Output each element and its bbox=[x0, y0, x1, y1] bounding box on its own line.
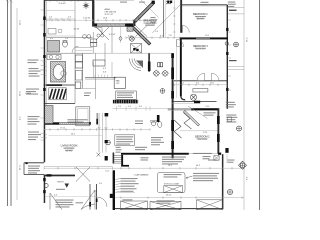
cased opening jamb bbox=[96, 119, 98, 125]
nook arcs bbox=[129, 59, 141, 71]
foyer east wall bbox=[96, 184, 98, 210]
stairwell line a bbox=[98, 113, 100, 153]
dim diamond laundry bbox=[119, 36, 122, 41]
hall north line y53 extension bbox=[93, 52, 172, 54]
pantry dark squares bbox=[133, 48, 138, 51]
bottom-left note rows bbox=[56, 200, 74, 208]
fan diamond laundry bbox=[129, 36, 135, 42]
wd counter lines bbox=[75, 48, 92, 51]
svg-text:5'-10: 5'-10 bbox=[206, 106, 210, 108]
kitchen cabinet ticks bbox=[95, 75, 108, 78]
west wall inner face bbox=[46, 0, 48, 122]
column symbol diamond bbox=[239, 161, 247, 169]
1car note rows bbox=[121, 178, 139, 192]
bath2 wall hatch bbox=[157, 115, 160, 122]
dim ticks y20 bbox=[47, 19, 151, 22]
garage north wall west part bbox=[121, 153, 189, 155]
svg-text:STOR 20x1 CLEAR: STOR 20x1 CLEAR bbox=[164, 183, 180, 186]
top-left room line y10 bbox=[47, 10, 76, 12]
garage door opening head bbox=[189, 153, 218, 155]
patio note bbox=[204, 112, 216, 115]
foyer east wall b bbox=[89, 184, 91, 210]
east window sill mark 1 bbox=[226, 28, 228, 31]
svg-text:4'-2: 4'-2 bbox=[103, 68, 106, 70]
bedroom2 SE corner block bbox=[225, 148, 228, 153]
dim ticks y197.6 bbox=[121, 197, 242, 199]
dim text 4-1 5-8 bbox=[74, 29, 80, 31]
two bed note bbox=[208, 160, 217, 161]
misc leader lines garage notes bbox=[115, 179, 120, 193]
garage east wall outer bbox=[226, 154, 228, 163]
dim line y130.8 bed2 bbox=[180, 130, 217, 132]
bath3 wall seg bbox=[74, 38, 76, 53]
label bedroom3 bbox=[193, 45, 208, 48]
label 1 car garage bbox=[134, 174, 150, 177]
entry reference line long bbox=[44, 165, 113, 167]
leader lines living texts bbox=[41, 133, 48, 138]
svg-text:8'-0: 8'-0 bbox=[139, 106, 142, 108]
dim label 4-3 bbox=[54, 194, 57, 196]
laundry wall x105 bbox=[104, 43, 106, 62]
bay diagonal lower hatched bbox=[132, 26, 151, 45]
bedroom3 north wall hatchgap bbox=[196, 38, 210, 39]
porch south wall bbox=[24, 174, 44, 176]
kitchen circles bbox=[83, 35, 91, 39]
bedroom3 south wall bbox=[174, 80, 227, 82]
hall west wall hatch 3 bbox=[171, 91, 174, 99]
west wall window 1 bbox=[43, 17, 46, 21]
bedroom4 window sill bbox=[229, 10, 237, 11]
west wall window 2 bbox=[43, 33, 46, 37]
entry door swing 2 bbox=[50, 193, 62, 210]
bath2 toilet bbox=[158, 122, 162, 128]
bedroom2 north wall thin part bbox=[168, 108, 192, 110]
laundry door arc bbox=[95, 27, 103, 34]
top-left room marks bbox=[48, 29, 62, 35]
fireplace dark band bbox=[113, 100, 138, 104]
east window sill mark 3 bbox=[226, 88, 228, 91]
nook hatch dark bbox=[136, 61, 143, 69]
porch post bbox=[26, 162, 28, 164]
top text marks mid bbox=[120, 1, 145, 4]
bath2 lav bbox=[151, 120, 157, 125]
west wall window 3 bbox=[43, 55, 46, 58]
wic shelves dark bbox=[50, 89, 67, 99]
garage north wall east jamb bbox=[218, 153, 221, 155]
dim labels y166.5 bbox=[168, 165, 200, 167]
hall line y53 bbox=[47, 52, 93, 54]
wall up from opening bbox=[96, 113, 98, 122]
vert dim x174 bbox=[173, 0, 175, 38]
porch note rows bbox=[28, 166, 40, 174]
dim labels y84 bbox=[180, 83, 214, 85]
label breakfast hgt bbox=[147, 25, 154, 27]
bedroom4 dim ticks x174 bbox=[173, 8, 175, 32]
stairwell dark blob 1 bbox=[105, 113, 109, 116]
kitchen east wall bbox=[148, 53, 150, 71]
label area2 bbox=[105, 11, 117, 14]
svg-text:4'-0: 4'-0 bbox=[99, 183, 102, 185]
svg-text:11'-0: 11'-0 bbox=[210, 83, 214, 85]
wic south wall dark bbox=[47, 84, 63, 86]
garage storage outline bbox=[158, 173, 186, 193]
note rows master closet bbox=[29, 68, 41, 77]
dim labels bedrooms split bbox=[169, 35, 209, 37]
corridor text marks bbox=[84, 93, 91, 97]
label area3 bbox=[105, 14, 115, 16]
small X box bbox=[214, 156, 219, 161]
label entry bbox=[58, 182, 65, 184]
conc pad note bbox=[226, 102, 236, 108]
svg-text:20'-10: 20'-10 bbox=[166, 195, 171, 197]
stair east wall black L vertical bbox=[121, 155, 123, 167]
wd16 note bbox=[157, 200, 175, 203]
bedroom2 closet zigzag bbox=[174, 120, 181, 138]
bedroom4 west wall bbox=[180, 0, 182, 33]
kitchen wall y79 bbox=[85, 78, 115, 80]
label living room bbox=[61, 145, 78, 148]
svg-text:WD HGT: WD HGT bbox=[66, 151, 73, 153]
svg-text:1'-6: 1'-6 bbox=[65, 38, 68, 40]
dim labels y128 bbox=[60, 127, 107, 129]
cu ab door note bbox=[162, 157, 186, 165]
foyer wall blob 1 bbox=[89, 202, 91, 207]
mbath vanity bowls bbox=[49, 55, 59, 58]
entry wall dark block bbox=[47, 174, 52, 176]
dim text 3-4 bbox=[59, 3, 67, 5]
svg-text:3'-4 5/8: 3'-4 5/8 bbox=[59, 3, 67, 5]
label living hgt bbox=[66, 151, 73, 153]
bath3 vanity hatched bbox=[48, 41, 60, 53]
east window sill mark 2 bbox=[226, 52, 228, 55]
laundry west wall bbox=[92, 0, 94, 26]
bath3 toilet bbox=[63, 41, 68, 48]
kitchen sink small bbox=[76, 71, 82, 81]
closet wall x163.5 b bbox=[164, 0, 166, 37]
leader arrow use-if bbox=[186, 176, 193, 178]
entry column circle bbox=[44, 184, 48, 188]
label bedroom3 size bbox=[196, 49, 205, 51]
dim label 24-2 bbox=[71, 134, 75, 136]
dim text 36 rotated bbox=[20, 91, 22, 96]
svg-text:17'-10: 17'-10 bbox=[60, 127, 65, 129]
bedroom2 NW diagonal bbox=[183, 110, 199, 126]
dining east wall upper bbox=[74, 0, 76, 38]
dim row y107 garage top bbox=[113, 106, 168, 111]
property line west A bbox=[7, 0, 9, 206]
dim text 11-0 rotated bbox=[20, 165, 22, 170]
laundry north wall block E bbox=[125, 23, 133, 26]
svg-text:7'-8: 7'-8 bbox=[169, 35, 172, 37]
shower hatched bbox=[45, 106, 53, 124]
garage X box mid bbox=[164, 186, 183, 193]
entry door swings bbox=[81, 190, 95, 210]
west wall window 6 bbox=[43, 190, 46, 193]
dim ticks y19 dining bbox=[50, 18, 68, 20]
opt sect door note bbox=[135, 147, 147, 150]
garage south wall bbox=[115, 208, 223, 210]
use if note bbox=[193, 173, 219, 181]
kitchen south counter line bbox=[75, 88, 95, 90]
bedroom2 east wall hatch 1 bbox=[217, 116, 220, 124]
pantry shelves bbox=[131, 44, 142, 54]
label bedroom4 bbox=[193, 13, 208, 16]
pantry label bbox=[116, 80, 120, 86]
corridor wall x95.5 bbox=[95, 53, 97, 78]
ent cab text rows bbox=[117, 92, 134, 98]
bath2 note rows bbox=[151, 137, 164, 145]
bath2 south wall east bbox=[200, 101, 217, 103]
svg-text:4'-0: 4'-0 bbox=[50, 38, 53, 40]
mbath wall x75 bbox=[74, 53, 76, 103]
dim text 4-2 bbox=[109, 34, 115, 36]
dim chain east bbox=[243, 0, 245, 210]
window symbol circle top bbox=[234, 42, 239, 47]
dim text 8-2 rotated east bottom bbox=[247, 176, 249, 180]
dim text 5-10 bed2 bbox=[206, 106, 210, 108]
top note B east bbox=[228, 2, 236, 8]
dim line y37.7 center bbox=[126, 37, 180, 39]
east note block bbox=[226, 115, 237, 123]
east wall window lines A bbox=[228, 66, 244, 68]
bedroom2 east wall bbox=[217, 108, 219, 154]
bath2 south wall west bbox=[172, 102, 194, 104]
bay outer face line bbox=[141, 0, 159, 18]
window symbol circle left bbox=[225, 42, 228, 45]
dining dim line 2 bbox=[47, 35, 76, 37]
property line east bbox=[259, 0, 261, 210]
kitchen west appliances bbox=[75, 55, 82, 88]
fan circle bbox=[160, 89, 165, 94]
bedroom2 hall wall bbox=[180, 39, 182, 96]
tick arrows y152 bbox=[97, 153, 101, 157]
bedroom2 north wall dark part bbox=[191, 108, 217, 110]
bed cabinet note bbox=[68, 119, 88, 122]
column symbol circle low bbox=[227, 189, 232, 194]
note rows bath dims bbox=[28, 116, 40, 125]
survey circle mid-east bbox=[237, 126, 242, 131]
garage west wall jog bbox=[110, 194, 113, 198]
dim label 20-10 bbox=[166, 195, 171, 197]
label bedroom2 size bbox=[198, 139, 207, 141]
stairwell dark blob 2 bbox=[105, 140, 108, 143]
label bedroom4 hgt bbox=[197, 19, 204, 21]
west wall window 5 bbox=[43, 178, 46, 181]
wd 9-0 note bbox=[193, 153, 212, 154]
storage label bbox=[164, 183, 180, 186]
north wall bedroom4 bbox=[182, 4, 227, 6]
corridor wall x93 bbox=[92, 32, 94, 53]
closet wall x163.5 bbox=[163, 0, 165, 37]
kitchen island bbox=[93, 60, 105, 66]
label breakfast size bbox=[146, 23, 155, 25]
breakfast door swing X bbox=[136, 26, 148, 37]
top line ticks bbox=[50, 0, 85, 2]
north wall laundry top bbox=[96, 0, 135, 2]
left wall dim marks bbox=[41, 10, 44, 140]
dim line y168 bottom bbox=[44, 167, 244, 169]
note rows wic2 bbox=[26, 89, 39, 95]
garage door X panel B bbox=[150, 202, 181, 210]
boxed note rows bbox=[116, 136, 133, 144]
dim ticks y168 bbox=[44, 167, 244, 170]
ent cab box bbox=[116, 91, 137, 99]
washer dryer boxes bbox=[90, 39, 97, 46]
chain tick marks west bbox=[6, 0, 12, 2]
east exterior wall upper bbox=[227, 5, 228, 109]
dim text 8-2 rotated east top bbox=[247, 37, 249, 42]
bedroom2 leader diagonal bbox=[188, 106, 208, 119]
corridor wall x95.5 lower bbox=[95, 78, 97, 99]
east wall window lines D bbox=[228, 7, 244, 9]
mbath vanity bbox=[47, 55, 61, 60]
bedroom3 row marks bbox=[195, 47, 206, 50]
west wall window 4 bbox=[43, 88, 46, 91]
dim note 16-0 bbox=[123, 199, 133, 200]
dim labels y18 bbox=[83, 17, 141, 19]
east wall window lines C bbox=[228, 13, 244, 15]
hall east line bbox=[176, 39, 178, 98]
bedroom3 door arc nw bbox=[177, 39, 184, 46]
pantry box bbox=[114, 77, 125, 88]
bedroom2 closet zig2 bbox=[184, 113, 192, 130]
dim line y84.6 bbox=[174, 84, 227, 86]
smoke circle bbox=[106, 140, 111, 145]
dim line y197.6 bbox=[115, 197, 244, 199]
gar label small bbox=[135, 121, 143, 125]
dim ticks dining bbox=[49, 17, 71, 19]
label living size bbox=[65, 148, 74, 150]
elec panel squares bbox=[158, 63, 163, 67]
garage interior dim line bbox=[116, 191, 135, 193]
label bedroom2 bbox=[195, 135, 210, 138]
hall west wall hatch 2 bbox=[171, 68, 174, 80]
kitchen wall y77 bbox=[85, 77, 115, 79]
svg-text:6'-8: 6'-8 bbox=[103, 72, 106, 74]
dim text 5-2 rotated bbox=[20, 116, 22, 120]
mud circles bbox=[97, 34, 104, 37]
LCT label bbox=[106, 170, 111, 172]
dining interior line bbox=[47, 18, 76, 20]
svg-text:40'-2: 40'-2 bbox=[196, 165, 200, 167]
svg-text:5'-0: 5'-0 bbox=[128, 106, 131, 108]
laundry wall end hatch below bbox=[127, 27, 133, 32]
entry texts 4-0 bbox=[94, 183, 102, 193]
dim line y20 long bbox=[47, 19, 151, 21]
svg-text:4'-1 5/8: 4'-1 5/8 bbox=[74, 29, 80, 31]
svg-text:1 CAR GARAGE: 1 CAR GARAGE bbox=[134, 174, 150, 177]
entry dim note bbox=[56, 189, 65, 190]
bed wid note bbox=[203, 156, 211, 159]
porch north wall bbox=[24, 162, 44, 164]
mbath tub circle bbox=[61, 71, 66, 76]
bedroom3 north wall dark bbox=[180, 37, 228, 39]
bath2 toilet2 bbox=[190, 94, 196, 100]
bottom left text marks bbox=[76, 202, 84, 203]
stair treads bbox=[114, 156, 121, 164]
fan diamond 1 bbox=[153, 70, 160, 77]
dim ticks y129.5 extra bbox=[50, 128, 141, 130]
dim ticks y20 extra bbox=[52, 19, 145, 21]
bedroom3 window sill bbox=[229, 60, 237, 61]
label breakfast bbox=[143, 19, 158, 22]
ceiling fan symbol bbox=[83, 2, 89, 9]
hall west wall bbox=[172, 53, 174, 158]
top note C bbox=[166, 1, 172, 4]
svg-text:11'-6: 11'-6 bbox=[205, 35, 209, 37]
svg-text:5'-2: 5'-2 bbox=[196, 83, 199, 85]
rotated dim 41-2 on bay bbox=[146, 8, 150, 12]
foyer door arc bbox=[97, 197, 107, 207]
svg-text:2'-8: 2'-8 bbox=[138, 17, 141, 19]
kitchen counter line bbox=[82, 53, 84, 88]
mud door swing X bbox=[96, 27, 109, 40]
bay corner vertical bbox=[133, 20, 135, 26]
dim line y135.4 bbox=[49, 135, 103, 137]
bedroom3 door arc 1 bbox=[197, 73, 205, 81]
dining french door X bbox=[76, 167, 90, 182]
bedroom3 door arc 2 bbox=[212, 73, 220, 81]
dim labels y36.5 bbox=[128, 35, 163, 37]
bedroom2 row marks bbox=[197, 137, 208, 140]
laundry north wall block W bbox=[92, 23, 97, 26]
garage door X panel A bbox=[121, 201, 148, 210]
note box center bbox=[115, 135, 135, 146]
svg-text:ENTRY: ENTRY bbox=[58, 182, 65, 184]
bedroom4 door leaf bbox=[181, 25, 183, 32]
dim label 9-10 bbox=[203, 132, 207, 134]
entry north wall bbox=[44, 175, 75, 177]
svg-text:SL 21.5 FT: SL 21.5 FT bbox=[105, 14, 115, 16]
breakfast row marks bbox=[144, 23, 157, 26]
foyer wall blob 2 bbox=[96, 199, 98, 203]
dim line y196.5 left bbox=[45, 196, 98, 198]
stairwell line c bbox=[105, 113, 107, 153]
svg-text:24'-2: 24'-2 bbox=[168, 165, 172, 167]
bay diagonal upper hatched bbox=[134, 2, 155, 23]
fan diamond 2 bbox=[162, 70, 169, 77]
pier note bbox=[228, 160, 235, 163]
svg-text:1'-4: 1'-4 bbox=[94, 191, 97, 193]
dim labels y107 bbox=[118, 106, 142, 108]
note rows living notes bbox=[28, 132, 41, 141]
breakfast-left note rows bbox=[151, 17, 157, 23]
bath2 south wall dark block bbox=[194, 101, 200, 104]
bay diagonal upper dark cap bbox=[152, 1, 155, 4]
dining east wall bbox=[92, 0, 94, 24]
master bath wall y103 bbox=[44, 103, 75, 105]
svg-text:24'-2: 24'-2 bbox=[71, 134, 75, 136]
stairwell dark blob 3 bbox=[105, 156, 108, 161]
note rows below box bbox=[116, 147, 122, 153]
svg-text:9'-10: 9'-10 bbox=[203, 132, 207, 134]
stair black L horizontal bbox=[121, 165, 129, 167]
svg-text:1'-0: 1'-0 bbox=[118, 106, 121, 108]
svg-text:4'-3: 4'-3 bbox=[54, 194, 57, 196]
svg-text:5'-10 3/4: 5'-10 3/4 bbox=[83, 17, 90, 19]
hall corner curve bbox=[181, 96, 185, 100]
leader lines bath texts bbox=[41, 61, 47, 76]
entry dark triangle bbox=[65, 184, 70, 188]
hall west wall hatch 4 bbox=[171, 120, 174, 131]
west exterior wall lower bbox=[44, 175, 46, 204]
window dim marks east bbox=[228, 20, 231, 90]
wic outline bbox=[49, 88, 67, 100]
hall west wall hatch 5 bbox=[171, 141, 174, 149]
dim text 4-0 bbox=[50, 38, 68, 40]
svg-text:LIVING ROOM: LIVING ROOM bbox=[61, 145, 78, 148]
dim ticks y84.8 bbox=[174, 84, 227, 86]
